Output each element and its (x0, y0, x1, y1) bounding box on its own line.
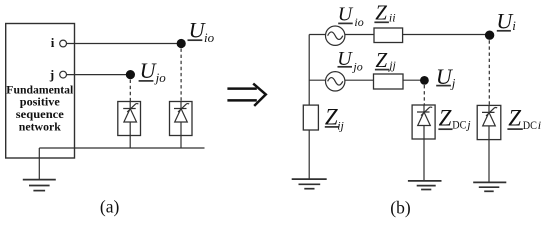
wire Zij to ground G2 (308, 130, 310, 179)
valve ZDCi (477, 105, 501, 139)
svg-text:jo: jo (154, 70, 167, 85)
bottom bus wire (39, 147, 204, 149)
wire valve V1 to bottom bus (129, 136, 131, 149)
label Ujo (b) (337, 48, 363, 74)
node Uj (420, 76, 429, 85)
wire valve V2 to bottom bus (180, 136, 182, 149)
wire source Ejo to Zjj (345, 79, 374, 81)
impedance Zjj (374, 74, 404, 89)
wire Zjj to node Uj (403, 79, 424, 81)
node Ui (485, 31, 494, 40)
label ZDCi (508, 105, 541, 132)
impedance Zij (303, 105, 318, 130)
arrow implies (227, 84, 265, 106)
wire ZDCj to ground G3 (423, 139, 425, 181)
label Uj (436, 64, 456, 91)
label Zjj (376, 48, 397, 72)
label Uio (189, 17, 215, 45)
ground G1 (23, 180, 56, 191)
svg-text:(a): (a) (100, 197, 120, 217)
dashed wire Uio to valve V2 (180, 49, 182, 102)
svg-text:Z: Z (376, 48, 388, 72)
label Ui (496, 8, 516, 33)
wire source Eio to Zii (345, 34, 374, 36)
valve ZDCj (412, 105, 435, 139)
svg-text:network: network (19, 119, 61, 133)
svg-text:Z: Z (508, 105, 521, 130)
terminal j (60, 71, 67, 78)
wire j to node Ujo (67, 74, 127, 76)
network box label (6, 82, 74, 133)
svg-text:ii: ii (389, 11, 396, 25)
svg-text:io: io (204, 30, 215, 45)
ground G2 (292, 179, 327, 189)
node Ujo (126, 70, 135, 79)
wire ZDCi to ground G4 (488, 140, 490, 183)
wire bus to source Ejo (309, 79, 325, 81)
dashed wire Ujo to valve V1 (129, 80, 131, 102)
wire bus to source Eio (309, 34, 325, 36)
node Uio (177, 39, 186, 48)
svg-text:DC: DC (523, 118, 537, 132)
svg-text:Z: Z (325, 104, 338, 129)
wire bus to ground G1 (38, 148, 40, 180)
wire Zii to node Ui (403, 34, 489, 36)
terminal i (60, 40, 67, 47)
svg-text:Z: Z (375, 1, 387, 25)
left bus wire (b) (308, 35, 310, 106)
source Eio (326, 26, 345, 45)
svg-text:jo: jo (351, 59, 362, 73)
svg-text:i: i (512, 18, 516, 33)
dashed wire Uj to valve ZDCj (423, 85, 425, 105)
source Ejo (326, 72, 345, 91)
svg-text:io: io (354, 15, 363, 29)
svg-text:DC: DC (452, 117, 466, 131)
label ZDCj (439, 106, 472, 132)
svg-text:i: i (538, 118, 541, 132)
label Zij (325, 104, 345, 132)
dashed wire Ui to valve ZDCi (488, 40, 490, 105)
network box N1 (6, 24, 75, 159)
svg-text:ij: ij (337, 118, 344, 132)
svg-text:(b): (b) (390, 197, 411, 217)
ground G3 (408, 181, 442, 190)
valve V2 (170, 102, 193, 136)
svg-text:j: j (49, 67, 54, 82)
valve V1 (118, 102, 141, 136)
svg-text:i: i (51, 35, 55, 50)
label Ujo (140, 58, 167, 85)
svg-text:U: U (338, 3, 354, 25)
label Uio (b) (338, 3, 364, 29)
svg-text:Z: Z (439, 106, 452, 131)
ground G4 (473, 182, 506, 191)
wire i to node Uio (67, 43, 178, 45)
label Zii (375, 1, 395, 25)
impedance Zii (374, 28, 403, 43)
